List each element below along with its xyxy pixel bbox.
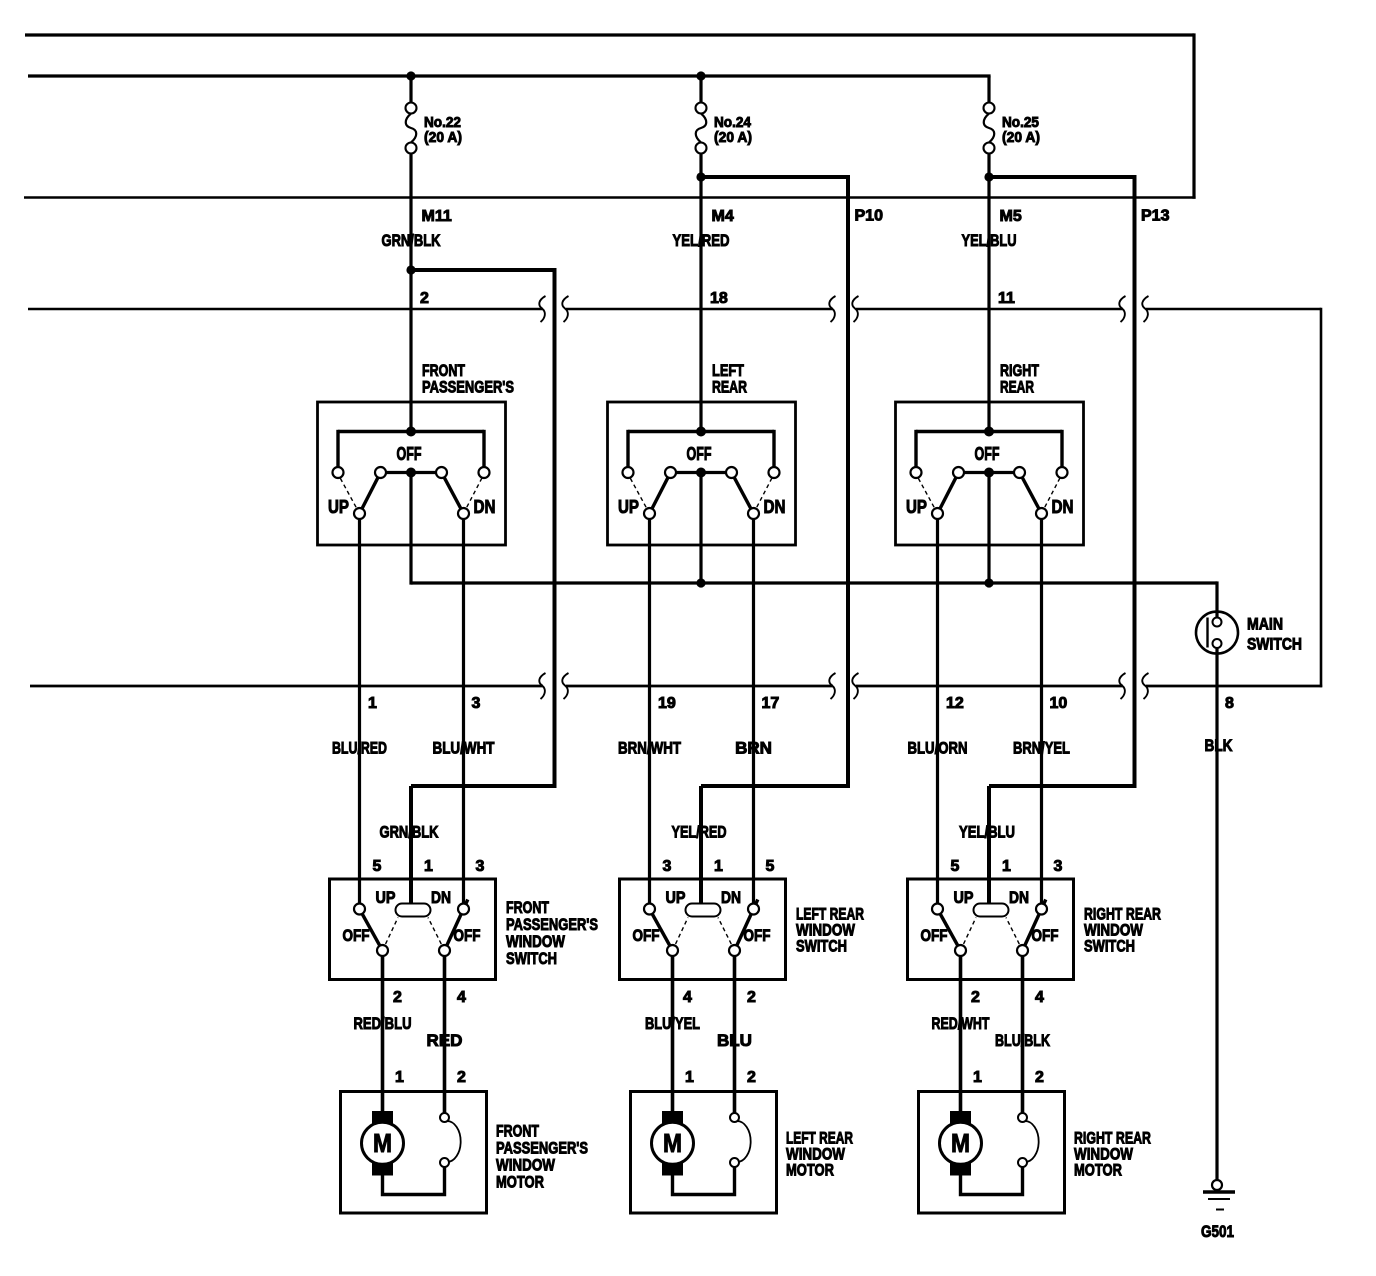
- svg-text:17: 17: [762, 695, 780, 712]
- wire: RED to motor breaker: [443, 955, 447, 1114]
- svg-text:OFF: OFF: [1032, 926, 1059, 945]
- contact: bottom left: [667, 945, 678, 956]
- wire: BLU to motor breaker: [733, 955, 737, 1114]
- switch blade right (solid): [735, 900, 758, 951]
- svg-text:2: 2: [971, 989, 980, 1006]
- switch blade DN alternate (dashed): [1042, 474, 1063, 514]
- contact: OFF right: [726, 467, 737, 478]
- wire: switch common line to main switch: [411, 581, 1217, 584]
- svg-text:DN: DN: [764, 497, 786, 517]
- switch blade DN (solid): [1017, 467, 1042, 513]
- wire: feed into fuse No.25: [987, 76, 990, 103]
- wire: jog return to pin 1 of left rear window switch: [701, 784, 850, 788]
- svg-text:1: 1: [1002, 858, 1011, 875]
- svg-text:(20 A): (20 A): [1002, 129, 1040, 146]
- junction: YEL/RED branch to jog: [696, 172, 705, 181]
- wire: right leg to DN contact: [482, 430, 485, 467]
- svg-text:3: 3: [1054, 858, 1063, 875]
- svg-text:UP: UP: [954, 888, 974, 907]
- circuit breaker arc: [1025, 1121, 1039, 1162]
- svg-text:RED/BLU: RED/BLU: [354, 1014, 412, 1033]
- motor brush bottom: [950, 1161, 971, 1176]
- switch blade UP (solid): [650, 467, 674, 513]
- junction: YEL/BLU branch to jog: [984, 172, 993, 181]
- svg-text:1: 1: [395, 1069, 404, 1086]
- switch blade right alternate (dashed): [1006, 918, 1023, 951]
- svg-text:10: 10: [1050, 695, 1068, 712]
- wire: BLU/RED UP output: [358, 519, 361, 905]
- svg-text:SWITCH: SWITCH: [796, 937, 847, 956]
- svg-text:DN: DN: [474, 497, 496, 517]
- wire: switch feed inside box: [916, 430, 1062, 433]
- junction: switch common node: [696, 468, 706, 478]
- motor brush top: [372, 1111, 393, 1126]
- motor M front passenger's: [362, 1122, 404, 1164]
- main switch: [1196, 612, 1238, 654]
- svg-text:DN: DN: [1009, 888, 1029, 907]
- contact: bottom left: [377, 945, 388, 956]
- svg-text:RED: RED: [427, 1031, 463, 1050]
- wire: interconnect bus row M: [24, 196, 1196, 199]
- svg-text:2: 2: [747, 989, 756, 1006]
- svg-text:BRN/WHT: BRN/WHT: [618, 739, 681, 758]
- wire: common bar: [671, 471, 732, 474]
- contact: DN outer: [769, 467, 780, 478]
- svg-text:GRN/BLK: GRN/BLK: [382, 231, 442, 250]
- wire: YEL/RED from fuse No.24 to left rear switch: [699, 153, 702, 433]
- svg-text:11: 11: [998, 290, 1015, 307]
- contact: DN outer: [479, 467, 490, 478]
- svg-text:2: 2: [1035, 1069, 1044, 1086]
- fuse No.24 (20 A): [696, 103, 707, 114]
- main switch contact bottom: [1213, 639, 1222, 648]
- contact: OFF left: [665, 467, 676, 478]
- svg-text:1: 1: [368, 695, 377, 712]
- svg-text:3: 3: [476, 858, 485, 875]
- svg-text:SWITCH: SWITCH: [1247, 635, 1302, 654]
- svg-text:DN: DN: [431, 888, 451, 907]
- wire: lower connector bus segment 1: [30, 685, 543, 688]
- svg-text:REAR: REAR: [1000, 378, 1034, 397]
- svg-text:PASSENGER'S: PASSENGER'S: [422, 378, 514, 397]
- wire: lower connector bus segment 3: [856, 685, 1123, 688]
- switch blade left (solid): [360, 909, 383, 951]
- wire: lower connector bus segment 4: [1146, 685, 1322, 688]
- svg-text:12: 12: [946, 695, 964, 712]
- break mark: [562, 673, 568, 699]
- wire: right edge drop connecting buses: [1320, 308, 1323, 688]
- contact: UP pole: [644, 508, 655, 519]
- contact: OFF right: [1014, 467, 1025, 478]
- svg-text:UP: UP: [328, 497, 349, 517]
- svg-text:BLU/RED: BLU/RED: [332, 739, 387, 758]
- break mark: [829, 296, 835, 322]
- svg-text:M4: M4: [712, 208, 734, 225]
- svg-text:UP: UP: [906, 497, 927, 517]
- svg-text:UP: UP: [666, 888, 686, 907]
- wire: BLU/YEL to motor: [671, 955, 675, 1113]
- svg-text:MOTOR: MOTOR: [496, 1173, 544, 1192]
- contact: OFF left: [953, 467, 964, 478]
- wire: feed bus A vertical drop at right: [1192, 33, 1195, 198]
- svg-text:RED/WHT: RED/WHT: [932, 1014, 990, 1033]
- junction: left rear switch common on common line: [696, 578, 705, 587]
- svg-text:OFF: OFF: [921, 926, 948, 945]
- motor brush top: [950, 1111, 971, 1126]
- svg-text:M: M: [373, 1128, 392, 1158]
- switch blade DN (solid): [439, 467, 464, 513]
- svg-text:1: 1: [685, 1069, 694, 1086]
- contact: DN pole: [1036, 508, 1047, 519]
- wire: connector bus (pins 2/18/11) segment 1: [28, 308, 543, 311]
- motor brush bottom: [372, 1161, 393, 1176]
- breaker terminal bottom: [1018, 1158, 1027, 1167]
- wire: feed into fuse No.24: [699, 76, 702, 103]
- wire: left leg to UP contact: [914, 430, 917, 467]
- wire: branch drop (GRN/BLK) vertical: [553, 268, 557, 786]
- junction: fuse No.24 tap on feed bus B: [696, 71, 705, 80]
- break mark: [1142, 673, 1148, 699]
- breaker terminal bottom: [730, 1158, 739, 1167]
- left rear window motor: [631, 1092, 777, 1214]
- svg-text:OFF: OFF: [343, 926, 370, 945]
- svg-text:OFF: OFF: [687, 444, 712, 464]
- front passenger's window switch: [330, 879, 496, 980]
- svg-text:G501: G501: [1201, 1222, 1234, 1241]
- contact: UP outer: [333, 467, 344, 478]
- svg-text:8: 8: [1225, 695, 1234, 712]
- svg-text:SWITCH: SWITCH: [1084, 937, 1135, 956]
- contact: top right: [748, 904, 759, 915]
- motor M right rear: [940, 1122, 982, 1164]
- contact: DN pole: [458, 508, 469, 519]
- contact: top left: [354, 904, 365, 915]
- contact: OFF left: [375, 467, 386, 478]
- junction: right rear switch common on common line: [984, 578, 993, 587]
- wire: RED/BLU to motor: [381, 955, 385, 1113]
- svg-text:2: 2: [420, 290, 429, 307]
- right rear switch (master switch section): [896, 402, 1084, 545]
- rocker common bar: [686, 904, 721, 917]
- svg-text:REAR: REAR: [712, 378, 747, 397]
- svg-text:BLU/WHT: BLU/WHT: [433, 739, 495, 758]
- break mark: [1119, 673, 1125, 699]
- svg-text:UP: UP: [376, 888, 396, 907]
- svg-text:(20 A): (20 A): [424, 129, 462, 146]
- front passenger's window motor: [341, 1092, 487, 1214]
- wire: connector bus segment 2: [566, 308, 833, 311]
- wire: BLU/BLK to motor breaker: [1021, 955, 1025, 1114]
- wire: common down to common line: [409, 473, 412, 585]
- ground G501: [1212, 1180, 1222, 1190]
- wire: battery feed bus B (to fuses): [28, 74, 991, 77]
- wire: connector bus segment 4: [1146, 308, 1321, 311]
- wire: switch feed inside box: [338, 430, 484, 433]
- left rear window switch: [620, 879, 786, 980]
- contact: top right: [458, 904, 469, 915]
- wire: branch jog horizontal: [987, 175, 1135, 179]
- front passenger's switch (master switch section): [318, 402, 506, 545]
- contact: OFF right: [436, 467, 447, 478]
- svg-text:DN: DN: [721, 888, 741, 907]
- switch blade UP alternate (dashed): [628, 474, 650, 514]
- contact: UP pole: [932, 508, 943, 519]
- wire: BRN/YEL DN output: [1040, 519, 1043, 905]
- wire: jog return to pin 1 of right rear window switch: [989, 784, 1137, 788]
- svg-text:M: M: [951, 1128, 970, 1158]
- contact: top right: [1036, 904, 1047, 915]
- svg-text:OFF: OFF: [454, 926, 481, 945]
- breaker terminal top: [1018, 1113, 1027, 1122]
- svg-text:M5: M5: [1000, 208, 1022, 225]
- svg-text:DN: DN: [1052, 497, 1074, 517]
- svg-text:BLK: BLK: [1205, 736, 1234, 755]
- right rear window motor: [919, 1092, 1065, 1214]
- junction: feed node in switch: [696, 427, 706, 437]
- wire: motor bottom loop: [673, 1166, 735, 1195]
- junction: GRN/BLK branch to jog: [406, 265, 415, 274]
- svg-text:YEL/RED: YEL/RED: [673, 231, 730, 250]
- break mark: [562, 296, 568, 322]
- wire: connector bus segment 3: [856, 308, 1123, 311]
- wire: left leg to UP contact: [336, 430, 339, 467]
- wire: branch jog horizontal: [699, 175, 848, 179]
- svg-text:3: 3: [663, 858, 672, 875]
- switch blade UP alternate (dashed): [338, 474, 360, 514]
- wire: BRN/WHT UP output: [648, 519, 651, 905]
- switch blade UP alternate (dashed): [916, 474, 938, 514]
- wire: common bar: [381, 471, 442, 474]
- wire: feed into fuse No.22: [409, 76, 412, 103]
- rocker common bar: [974, 904, 1009, 917]
- wire: BLK from main switch to ground: [1215, 648, 1218, 1180]
- svg-text:OFF: OFF: [397, 444, 422, 464]
- svg-text:MOTOR: MOTOR: [1074, 1161, 1122, 1180]
- junction: switch common node: [406, 468, 416, 478]
- fuse No.25 (20 A): [984, 103, 995, 114]
- svg-text:M: M: [663, 1128, 682, 1158]
- left rear switch (master switch section): [608, 402, 796, 545]
- svg-text:GRN/BLK: GRN/BLK: [380, 823, 440, 842]
- switch blade right (solid): [1023, 900, 1046, 951]
- svg-text:BLU: BLU: [717, 1031, 752, 1050]
- svg-text:3: 3: [472, 695, 481, 712]
- svg-text:OFF: OFF: [975, 444, 1000, 464]
- svg-text:18: 18: [710, 290, 728, 307]
- right rear window switch: [908, 879, 1074, 980]
- break mark: [539, 673, 545, 699]
- contact: UP outer: [911, 467, 922, 478]
- wire: motor bottom loop: [383, 1166, 445, 1195]
- wire: YEL/BLU from fuse No.25 to right rear switch: [987, 153, 990, 433]
- fuse No.22 (20 A): [406, 103, 417, 114]
- contact: bottom right: [439, 945, 450, 956]
- wire: left leg to UP contact: [626, 430, 629, 467]
- wire: common bar: [959, 471, 1020, 474]
- wire: common down to common line: [699, 473, 702, 585]
- svg-text:P13: P13: [1141, 208, 1170, 225]
- svg-text:2: 2: [393, 989, 402, 1006]
- contact: bottom right: [1017, 945, 1028, 956]
- svg-text:5: 5: [951, 858, 960, 875]
- svg-text:BRN: BRN: [735, 739, 772, 758]
- switch blade left alternate (dashed): [961, 918, 977, 951]
- wire: common line drop to main switch: [1215, 581, 1218, 618]
- circuit breaker arc: [737, 1121, 751, 1162]
- svg-text:BLU/ORN: BLU/ORN: [908, 739, 968, 758]
- svg-text:UP: UP: [618, 497, 639, 517]
- wire: common down to common line: [987, 473, 990, 585]
- svg-text:5: 5: [373, 858, 382, 875]
- svg-text:BLU/YEL: BLU/YEL: [645, 1014, 700, 1033]
- svg-text:OFF: OFF: [744, 926, 771, 945]
- switch blade left (solid): [650, 909, 673, 951]
- svg-text:1: 1: [714, 858, 723, 875]
- switch blade DN alternate (dashed): [464, 474, 485, 514]
- switch blade DN (solid): [729, 467, 754, 513]
- junction: feed node in switch: [984, 427, 994, 437]
- contact: bottom left: [955, 945, 966, 956]
- switch blade left alternate (dashed): [383, 918, 399, 951]
- svg-text:BLU/BLK: BLU/BLK: [995, 1031, 1051, 1050]
- wire: BLU/ORN UP output: [936, 519, 939, 905]
- junction: switch common node: [984, 468, 994, 478]
- svg-text:YEL/RED: YEL/RED: [672, 823, 727, 842]
- break mark: [1119, 296, 1125, 322]
- wire: battery feed bus A: [25, 33, 1194, 36]
- switch blade UP (solid): [938, 467, 962, 513]
- svg-text:YEL/BLU: YEL/BLU: [962, 231, 1017, 250]
- wire: GRN/BLK from fuse No.22 to front passenger's switch: [409, 153, 412, 433]
- svg-text:BRN/YEL: BRN/YEL: [1013, 739, 1070, 758]
- break mark: [852, 673, 858, 699]
- motor brush top: [662, 1111, 683, 1126]
- switch blade right alternate (dashed): [718, 918, 735, 951]
- svg-text:4: 4: [1035, 989, 1044, 1006]
- contact: UP outer: [623, 467, 634, 478]
- contact: bottom right: [729, 945, 740, 956]
- svg-text:SWITCH: SWITCH: [506, 949, 557, 968]
- wire: RED/WHT to motor: [959, 955, 963, 1113]
- switch blade left alternate (dashed): [673, 918, 689, 951]
- break mark: [1142, 296, 1148, 322]
- switch blade DN alternate (dashed): [754, 474, 775, 514]
- svg-text:MOTOR: MOTOR: [786, 1161, 834, 1180]
- wire: branch drop P13 vertical: [1133, 175, 1137, 786]
- wire: switch feed inside box: [628, 430, 774, 433]
- breaker terminal top: [440, 1113, 449, 1122]
- svg-text:1: 1: [424, 858, 433, 875]
- svg-text:MAIN: MAIN: [1247, 615, 1283, 634]
- contact: UP pole: [354, 508, 365, 519]
- svg-text:2: 2: [457, 1069, 466, 1086]
- svg-text:P10: P10: [855, 208, 884, 225]
- switch blade UP (solid): [360, 467, 384, 513]
- wire: BRN DN output: [752, 519, 755, 905]
- wire: BLU/WHT DN output: [462, 519, 465, 905]
- contact: DN outer: [1057, 467, 1068, 478]
- wire: right leg to DN contact: [1060, 430, 1063, 467]
- break mark: [852, 296, 858, 322]
- junction: fuse No.22 tap on feed bus B: [406, 71, 415, 80]
- svg-text:1: 1: [973, 1069, 982, 1086]
- wire: lower connector bus segment 2: [566, 685, 833, 688]
- main switch contact top: [1213, 618, 1222, 627]
- circuit breaker arc: [447, 1121, 461, 1162]
- breaker terminal top: [730, 1113, 739, 1122]
- motor brush bottom: [662, 1161, 683, 1176]
- svg-text:19: 19: [658, 695, 676, 712]
- svg-text:2: 2: [747, 1069, 756, 1086]
- wire: branch jog horizontal: [409, 268, 555, 272]
- contact: top left: [932, 904, 943, 915]
- wire: right leg to DN contact: [772, 430, 775, 467]
- svg-text:M11: M11: [422, 208, 452, 225]
- wire: branch drop P10 vertical: [846, 175, 850, 786]
- svg-text:YEL/BLU: YEL/BLU: [959, 823, 1015, 842]
- svg-text:5: 5: [766, 858, 775, 875]
- breaker terminal bottom: [440, 1158, 449, 1167]
- motor M left rear: [652, 1122, 694, 1164]
- svg-text:(20 A): (20 A): [714, 129, 752, 146]
- wire: jog return to pin 1 of front passenger's window switch: [411, 784, 557, 788]
- svg-text:4: 4: [683, 989, 692, 1006]
- switch blade left (solid): [938, 909, 961, 951]
- junction: feed node in switch: [406, 427, 416, 437]
- contact: top left: [644, 904, 655, 915]
- svg-text:OFF: OFF: [633, 926, 660, 945]
- switch blade right alternate (dashed): [428, 918, 445, 951]
- break mark: [829, 673, 835, 699]
- switch blade right (solid): [445, 900, 468, 951]
- rocker common bar: [396, 904, 431, 917]
- break mark: [539, 296, 545, 322]
- wire: motor bottom loop: [961, 1166, 1023, 1195]
- contact: DN pole: [748, 508, 759, 519]
- svg-text:4: 4: [457, 989, 466, 1006]
